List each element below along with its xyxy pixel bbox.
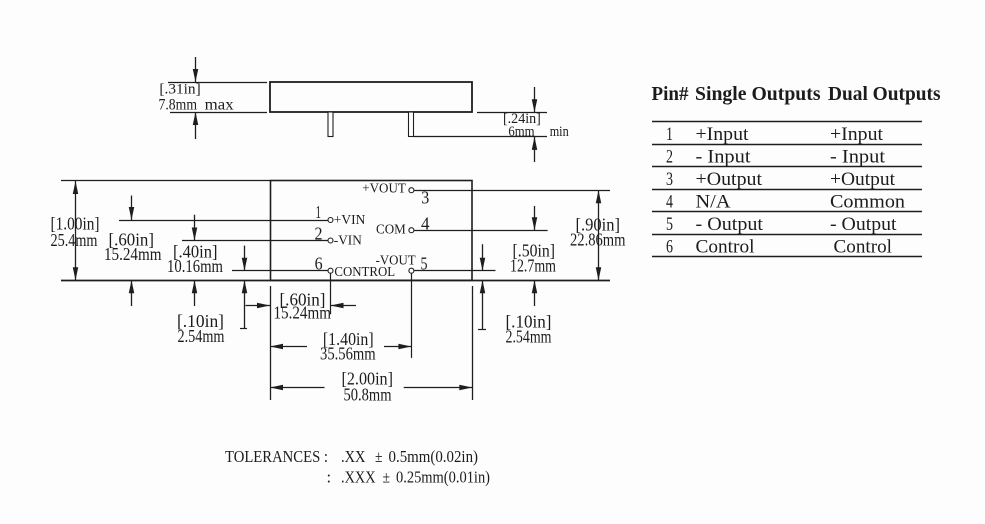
svg-text:- Input: - Input — [830, 146, 886, 167]
arrow down to pin5 row — [482, 244, 484, 271]
pin 5 leader down — [411, 273, 413, 358]
pin 2 line — [182, 240, 328, 242]
arrow up to bottom edge (0.10 right) — [482, 280, 484, 329]
table rule 5 — [652, 211, 922, 213]
pin 6 terminal — [328, 268, 333, 273]
svg-text:3: 3 — [666, 169, 673, 190]
svg-text:+Output: +Output — [830, 169, 896, 190]
body bottom edge extension — [61, 280, 610, 282]
arrow up to bottom edge (0.60) — [131, 280, 133, 306]
svg-text:max: max — [205, 97, 234, 114]
svg-text:min: min — [550, 124, 570, 140]
svg-text:Dual Outputs: Dual Outputs — [828, 84, 941, 105]
leader foot 0.10 right — [478, 329, 486, 331]
svg-text:10.16mm: 10.16mm — [167, 256, 223, 276]
svg-text:Control: Control — [834, 236, 893, 257]
dimension 1.00in / 25.4mm overall height — [75, 181, 77, 280]
svg-text:Control: Control — [696, 236, 755, 257]
svg-text:COM: COM — [376, 222, 406, 237]
pin 3 terminal — [409, 188, 414, 193]
svg-text:12.7mm: 12.7mm — [510, 255, 556, 275]
arrow down to pin4 row — [534, 206, 536, 230]
svg-text:2.54mm: 2.54mm — [178, 326, 225, 346]
svg-text:0.5mm(0.02in): 0.5mm(0.02in) — [389, 447, 479, 466]
table rule 3 — [652, 166, 922, 168]
svg-text:-VIN: -VIN — [334, 234, 362, 249]
extension line body bottom right — [477, 112, 547, 114]
side view pin 1 lead — [328, 112, 333, 137]
dimension 1.40in / 35.56mm — [270, 346, 307, 348]
arrow down to body top — [195, 57, 197, 82]
svg-text:1: 1 — [316, 202, 322, 222]
table rule 6 — [652, 234, 922, 236]
svg-text:0.25mm(0.01in): 0.25mm(0.01in) — [396, 467, 490, 486]
svg-text:±: ± — [375, 447, 383, 466]
dimension .90in / 22.86mm — [598, 190, 600, 280]
arrow down to pin2 row — [194, 215, 196, 241]
pin 3 line — [414, 190, 610, 192]
svg-text:4: 4 — [666, 192, 673, 213]
svg-text:1: 1 — [666, 124, 673, 145]
extension line right edge down — [472, 286, 474, 400]
svg-text:5: 5 — [666, 214, 673, 235]
pin 6 line — [232, 270, 328, 272]
pin 1 line — [119, 220, 328, 222]
svg-text:Pin#: Pin# — [652, 84, 689, 105]
svg-text:N/A: N/A — [696, 191, 731, 212]
table rule 4 — [652, 189, 922, 191]
body top edge extension left — [61, 180, 270, 182]
svg-text:6: 6 — [315, 253, 323, 273]
svg-text:.XXX: .XXX — [341, 467, 376, 486]
svg-text:50.8mm: 50.8mm — [344, 384, 392, 404]
svg-text:Common: Common — [830, 191, 906, 212]
svg-text:- Input: - Input — [696, 146, 752, 167]
svg-text:7.8mm: 7.8mm — [159, 97, 198, 114]
svg-text:- Output: - Output — [696, 214, 764, 235]
table rule 1 — [652, 121, 922, 123]
svg-text:6mm: 6mm — [508, 124, 535, 140]
dimension .60in / 15.24mm horizontal — [246, 305, 271, 307]
svg-text:TOLERANCES :: TOLERANCES : — [225, 447, 328, 466]
svg-text:5: 5 — [421, 253, 428, 273]
svg-text::: : — [327, 467, 332, 486]
arrow up to bottom edge (0.10 left) — [244, 280, 246, 328]
svg-text:Single Outputs: Single Outputs — [695, 84, 821, 105]
svg-text:+Output: +Output — [696, 169, 763, 190]
arrow up to bottom edge (0.40) — [194, 280, 196, 306]
svg-text:+Input: +Input — [830, 124, 884, 145]
svg-text:4: 4 — [421, 214, 430, 234]
svg-text:3: 3 — [421, 187, 429, 207]
pin 5 terminal — [409, 268, 414, 273]
svg-text:.XX: .XX — [341, 447, 366, 466]
svg-text:22.86mm: 22.86mm — [570, 230, 626, 250]
arrow down to pin1 row — [131, 196, 133, 221]
arrow down to body bottom — [534, 87, 536, 112]
pin 4 line — [414, 230, 547, 232]
svg-text:+VOUT: +VOUT — [362, 182, 406, 197]
extension line pin tip — [414, 136, 548, 138]
svg-text:[.31in]: [.31in] — [159, 81, 200, 97]
pin 2 terminal — [328, 238, 333, 243]
svg-text:- Output: - Output — [830, 214, 897, 235]
dimension 2.00in / 50.8mm — [270, 387, 325, 389]
svg-text:2.54mm: 2.54mm — [506, 327, 552, 347]
package body side view — [270, 82, 472, 112]
arrow up to body bottom — [195, 112, 197, 139]
table rule 7 — [652, 256, 922, 258]
svg-text:+Input: +Input — [696, 124, 750, 145]
leader foot 0.10 left — [240, 328, 247, 330]
side view pin 2 lead — [409, 112, 414, 137]
arrow up to bottom edge (0.50) — [534, 280, 536, 306]
svg-text:35.56mm: 35.56mm — [320, 344, 376, 364]
pin 4 terminal — [409, 228, 414, 233]
package body bottom view — [271, 181, 473, 281]
arrow down to pin6 row — [244, 246, 246, 271]
extension line body top — [168, 82, 267, 84]
svg-text:6: 6 — [666, 237, 673, 258]
svg-text:2: 2 — [666, 147, 673, 168]
pin 6 leader down — [330, 273, 332, 314]
svg-text:±: ± — [383, 467, 391, 486]
pin 1 terminal — [328, 218, 333, 223]
extension line body bottom — [170, 112, 267, 114]
svg-text:15.24mm: 15.24mm — [104, 244, 162, 264]
pin 5 line — [414, 270, 495, 272]
svg-text:-VOUT: -VOUT — [376, 254, 416, 269]
svg-text:25.4mm: 25.4mm — [51, 230, 98, 250]
extension line left edge down — [270, 286, 272, 400]
svg-text:15.24mm: 15.24mm — [274, 303, 332, 323]
svg-text:+VIN: +VIN — [334, 213, 366, 228]
svg-text:2: 2 — [315, 224, 323, 244]
table rule 2 — [652, 144, 922, 146]
arrow up to pin tip — [534, 137, 536, 162]
